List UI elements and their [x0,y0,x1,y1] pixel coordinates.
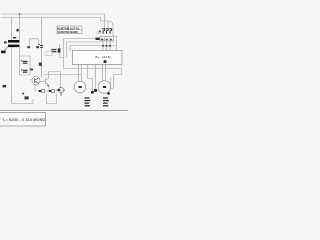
wire to dot1 [88,65,93,92]
transformer T1 winding bar 1 [8,40,20,43]
wire mid drop [95,65,97,90]
jack mark inside lower-left box [25,96,29,99]
wire rail2 drop right [101,18,108,29]
pin wire 1 [102,41,104,51]
node dot B [107,92,110,94]
lower-left box [12,86,34,104]
transistor Q2 base wire [40,81,46,83]
wire top rail 1 [1,13,105,15]
capacitor C3 on dropper [40,45,43,46]
amplifier chassis box [73,51,123,65]
pin wire 2 [106,41,108,51]
wire top rail 2 [1,17,101,19]
wire secondary left [11,47,13,86]
transistor Q1 internals [35,78,39,83]
wire rail1 drop right [104,14,106,29]
transistor Q1 [32,77,40,85]
wire Q1 base feed [30,79,32,81]
transistor Q2 emitter arrow [47,85,49,87]
wire Q1 emitter down [34,84,36,91]
right vertical feed [114,36,117,51]
connector J1 [58,48,61,52]
pin arrowhead 3 [109,44,112,46]
capacitor C1 plus [21,60,22,61]
chassis dark mark [104,60,107,63]
wire hook feed [96,32,101,34]
wire curved feed [108,21,113,36]
svg-text:[24-5]: [24-5] [103,55,111,59]
nested corner wire 3 [70,46,117,51]
wire transformer primary right [19,14,21,40]
terminal strip arrow [96,38,100,40]
AC plug [1,51,6,54]
fuse label F1 [17,29,19,31]
pin arrowhead 2 [105,44,108,46]
trim pot TR1 box [42,89,45,92]
capacitor C1 [23,61,28,62]
nested corner wire 2 [67,42,100,57]
label list under M2 [103,97,109,106]
M2 feed wire a [102,65,104,82]
bias row wire [38,90,58,92]
wire secondary right [19,47,21,56]
bias link [47,94,57,104]
meter M2 [98,81,111,94]
potentiometer P1 [58,87,63,92]
svg-text:B+: B+ [96,55,100,59]
corner wire from connector [60,53,64,58]
node dot A [91,91,94,94]
label list under M1 [85,97,91,106]
meter M1 [74,81,86,93]
svg-text:1 • K200 - X 310 MONO: 1 • K200 - X 310 MONO [3,118,46,122]
terminal blob mid [94,89,97,92]
small dot below loop [22,93,24,95]
rectifier box [30,39,39,46]
transformer T1 winding bar 2 [8,45,20,48]
meter M2 label [103,86,106,88]
transformer label left [4,41,7,43]
caption box [0,113,46,126]
potentiometer P1 wiper [58,89,61,91]
wire AC cord [5,47,9,51]
parts table [57,26,82,34]
svg-text:QUANTA SE-2M: QUANTA SE-2M [58,30,79,34]
pin arrowhead 1 [102,44,105,46]
meter M1 label [79,86,82,88]
terminal strip dividers [105,37,110,41]
capacitor C2 plus [21,69,22,70]
heater hook 1 [102,29,104,34]
bus below chassis [64,69,122,75]
junction dot on rail 1 [19,13,21,15]
speaker loop right [111,75,114,89]
pin wire 3 [109,41,111,51]
nested corner wire 1 [64,39,96,69]
filter loop box [20,56,31,75]
connector stub [58,44,60,48]
transistor Q2 [46,72,50,90]
heater hook 2 [106,29,108,34]
label 2x [3,85,6,87]
M2 feed wire b [105,65,107,82]
node dot left of hooks [99,31,101,33]
M1 feed wire a [78,65,80,82]
diode D2 [36,46,39,48]
svg-text:KUSTOM 2x 7-15: KUSTOM 2x 7-15 [58,26,80,30]
transformer label top [13,37,16,38]
wire transformer primary left [11,18,13,41]
diode D3 on dropper [39,63,42,66]
trim pot TR2 arrow [49,90,51,92]
wire Q2 collector top [49,72,61,75]
label Q1 [30,69,33,71]
trim pot TR1 arrow [39,90,41,92]
capacitor C2 [23,70,28,71]
connector J1 label [51,49,56,50]
pot dropper [60,75,62,89]
label small box [46,51,53,55]
heater hook 3 [109,29,111,34]
M1 feed wire b [81,65,83,82]
terminal strip cell marks [101,39,103,41]
bottom rail [0,110,128,112]
potentiometer P1 marks [57,90,66,96]
terminal strip box [100,37,114,41]
wire center dropper [41,18,43,78]
trim pot TR2 box [52,89,55,92]
output bus left [44,74,82,76]
diode D1 [27,46,30,48]
